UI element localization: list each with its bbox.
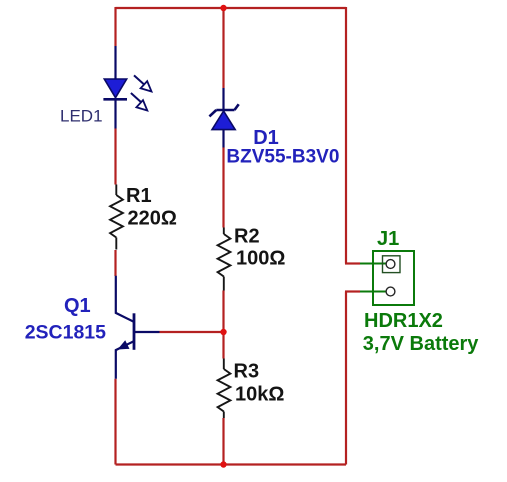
wire stub to J1 pin2 — [345, 290, 360, 292]
wire right vertical (J1 pin2 to bottom) — [345, 292, 347, 465]
node junction dot base — [220, 329, 226, 335]
svg-text:220Ω: 220Ω — [128, 208, 177, 230]
wire left vertical (LED to R1) — [114, 129, 116, 185]
svg-text:100Ω: 100Ω — [236, 248, 285, 270]
wire middle vertical (D1 to R2) — [222, 148, 224, 228]
svg-text:BZV55-B3V0: BZV55-B3V0 — [226, 147, 339, 168]
wire Q1 base to middle net — [160, 331, 224, 333]
resistor R1 — [110, 185, 123, 250]
wire middle vertical (top to D1) — [222, 7, 224, 88]
svg-text:HDR1X2: HDR1X2 — [364, 310, 443, 332]
svg-text:3,7V Battery: 3,7V Battery — [363, 333, 479, 355]
wire left vertical (R1 to Q1 collector) — [114, 250, 116, 276]
wire stub to J1 pin1 — [345, 262, 360, 264]
svg-text:Q1: Q1 — [64, 295, 91, 317]
svg-text:10kΩ: 10kΩ — [235, 384, 284, 406]
wire bottom horizontal net — [116, 463, 347, 465]
svg-text:R3: R3 — [234, 361, 260, 383]
svg-text:J1: J1 — [377, 228, 399, 250]
svg-text:2SC1815: 2SC1815 — [25, 322, 106, 344]
node junction dot bottom — [220, 461, 226, 467]
wire left vertical (Q1 emitter to bottom) — [114, 379, 116, 465]
J1 pin 1 circle — [386, 260, 395, 269]
svg-text:D1: D1 — [253, 127, 279, 149]
resistor R3 — [218, 359, 231, 419]
J1 pin 2 circle — [386, 287, 395, 296]
resistor R2 — [218, 228, 231, 291]
svg-text:LED1: LED1 — [60, 107, 103, 126]
zener diode D1 — [209, 88, 238, 148]
wire left vertical (top segment to LED) — [114, 7, 116, 46]
node junction dot top — [220, 5, 226, 11]
wire right vertical (top to J1 pin1) — [345, 7, 347, 264]
LED LED1 — [103, 46, 151, 129]
wire middle vertical (R2 to base node) — [222, 291, 224, 359]
wire middle vertical (R3 to bottom) — [222, 418, 224, 465]
wire top horizontal net — [116, 7, 347, 9]
connector J1 HDR1X2 — [360, 251, 414, 305]
svg-text:R2: R2 — [234, 226, 260, 248]
svg-text:R1: R1 — [126, 185, 152, 207]
transistor Q1 (NPN, mirrored) — [116, 276, 160, 379]
